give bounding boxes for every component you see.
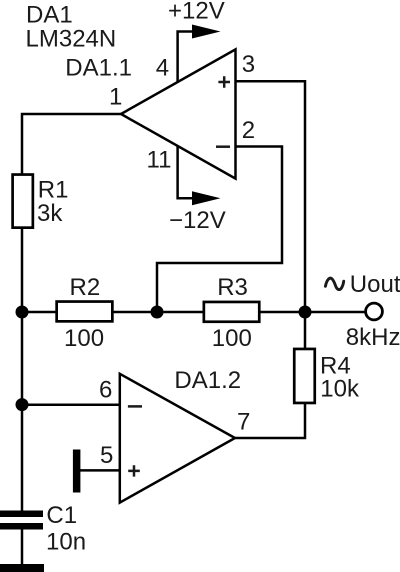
svg-text:8kHz: 8kHz: [346, 324, 400, 351]
svg-text:6: 6: [99, 376, 112, 403]
svg-text:R3: R3: [217, 274, 248, 301]
svg-text:−12V: −12V: [169, 207, 226, 234]
svg-text:C1: C1: [46, 502, 77, 529]
svg-text:1: 1: [109, 84, 122, 111]
svg-text:3: 3: [242, 51, 255, 78]
svg-text:+12V: +12V: [168, 0, 225, 24]
svg-text:DA1.2: DA1.2: [174, 367, 241, 394]
svg-text:Uout: Uout: [350, 271, 400, 298]
svg-text:3k: 3k: [37, 200, 63, 227]
svg-text:2: 2: [242, 117, 255, 144]
svg-text:7: 7: [237, 409, 250, 436]
svg-text:11: 11: [147, 147, 172, 174]
svg-text:100: 100: [64, 325, 104, 352]
svg-text:10n: 10n: [46, 528, 86, 555]
svg-text:LM324N: LM324N: [26, 26, 117, 53]
svg-text:R2: R2: [70, 274, 101, 301]
svg-text:5: 5: [100, 442, 113, 469]
svg-text:4: 4: [156, 55, 169, 82]
svg-text:DA1.1: DA1.1: [65, 55, 132, 82]
svg-text:10k: 10k: [320, 375, 360, 402]
svg-text:100: 100: [212, 325, 252, 352]
